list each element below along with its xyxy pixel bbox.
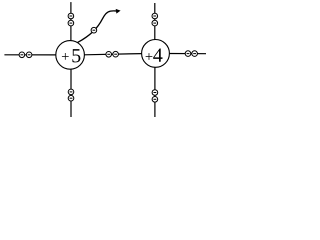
electron pair on right bond xyxy=(185,51,197,57)
wire: bottom vertical bond of +4 atom xyxy=(154,67,156,117)
wire: left horizontal bond of +5 atom xyxy=(4,54,56,56)
electron pair on top bond of +5 xyxy=(68,13,74,26)
donor atom core +5 xyxy=(56,41,85,70)
wire: bottom vertical bond of +5 atom xyxy=(70,69,72,117)
electron pair on bottom bond of +4 xyxy=(152,90,158,102)
wire: top vertical bond of +5 atom xyxy=(70,2,72,41)
wire: top vertical bond of +4 atom xyxy=(154,3,156,40)
wire: middle horizontal bond between +5 and +4 xyxy=(84,54,141,55)
free electron leaving the +5 atom xyxy=(91,27,97,33)
silicon atom core +4 xyxy=(142,40,170,68)
electron pair on middle bond xyxy=(106,51,119,57)
electron pair on left bond xyxy=(19,52,32,58)
wire: right horizontal bond of +4 atom xyxy=(169,53,206,55)
electron pair on bottom bond of +5 xyxy=(68,89,74,101)
wire: curved escape trajectory of fifth electron with arrowhead xyxy=(77,9,120,43)
electron pair on top bond of +4 xyxy=(152,13,158,26)
